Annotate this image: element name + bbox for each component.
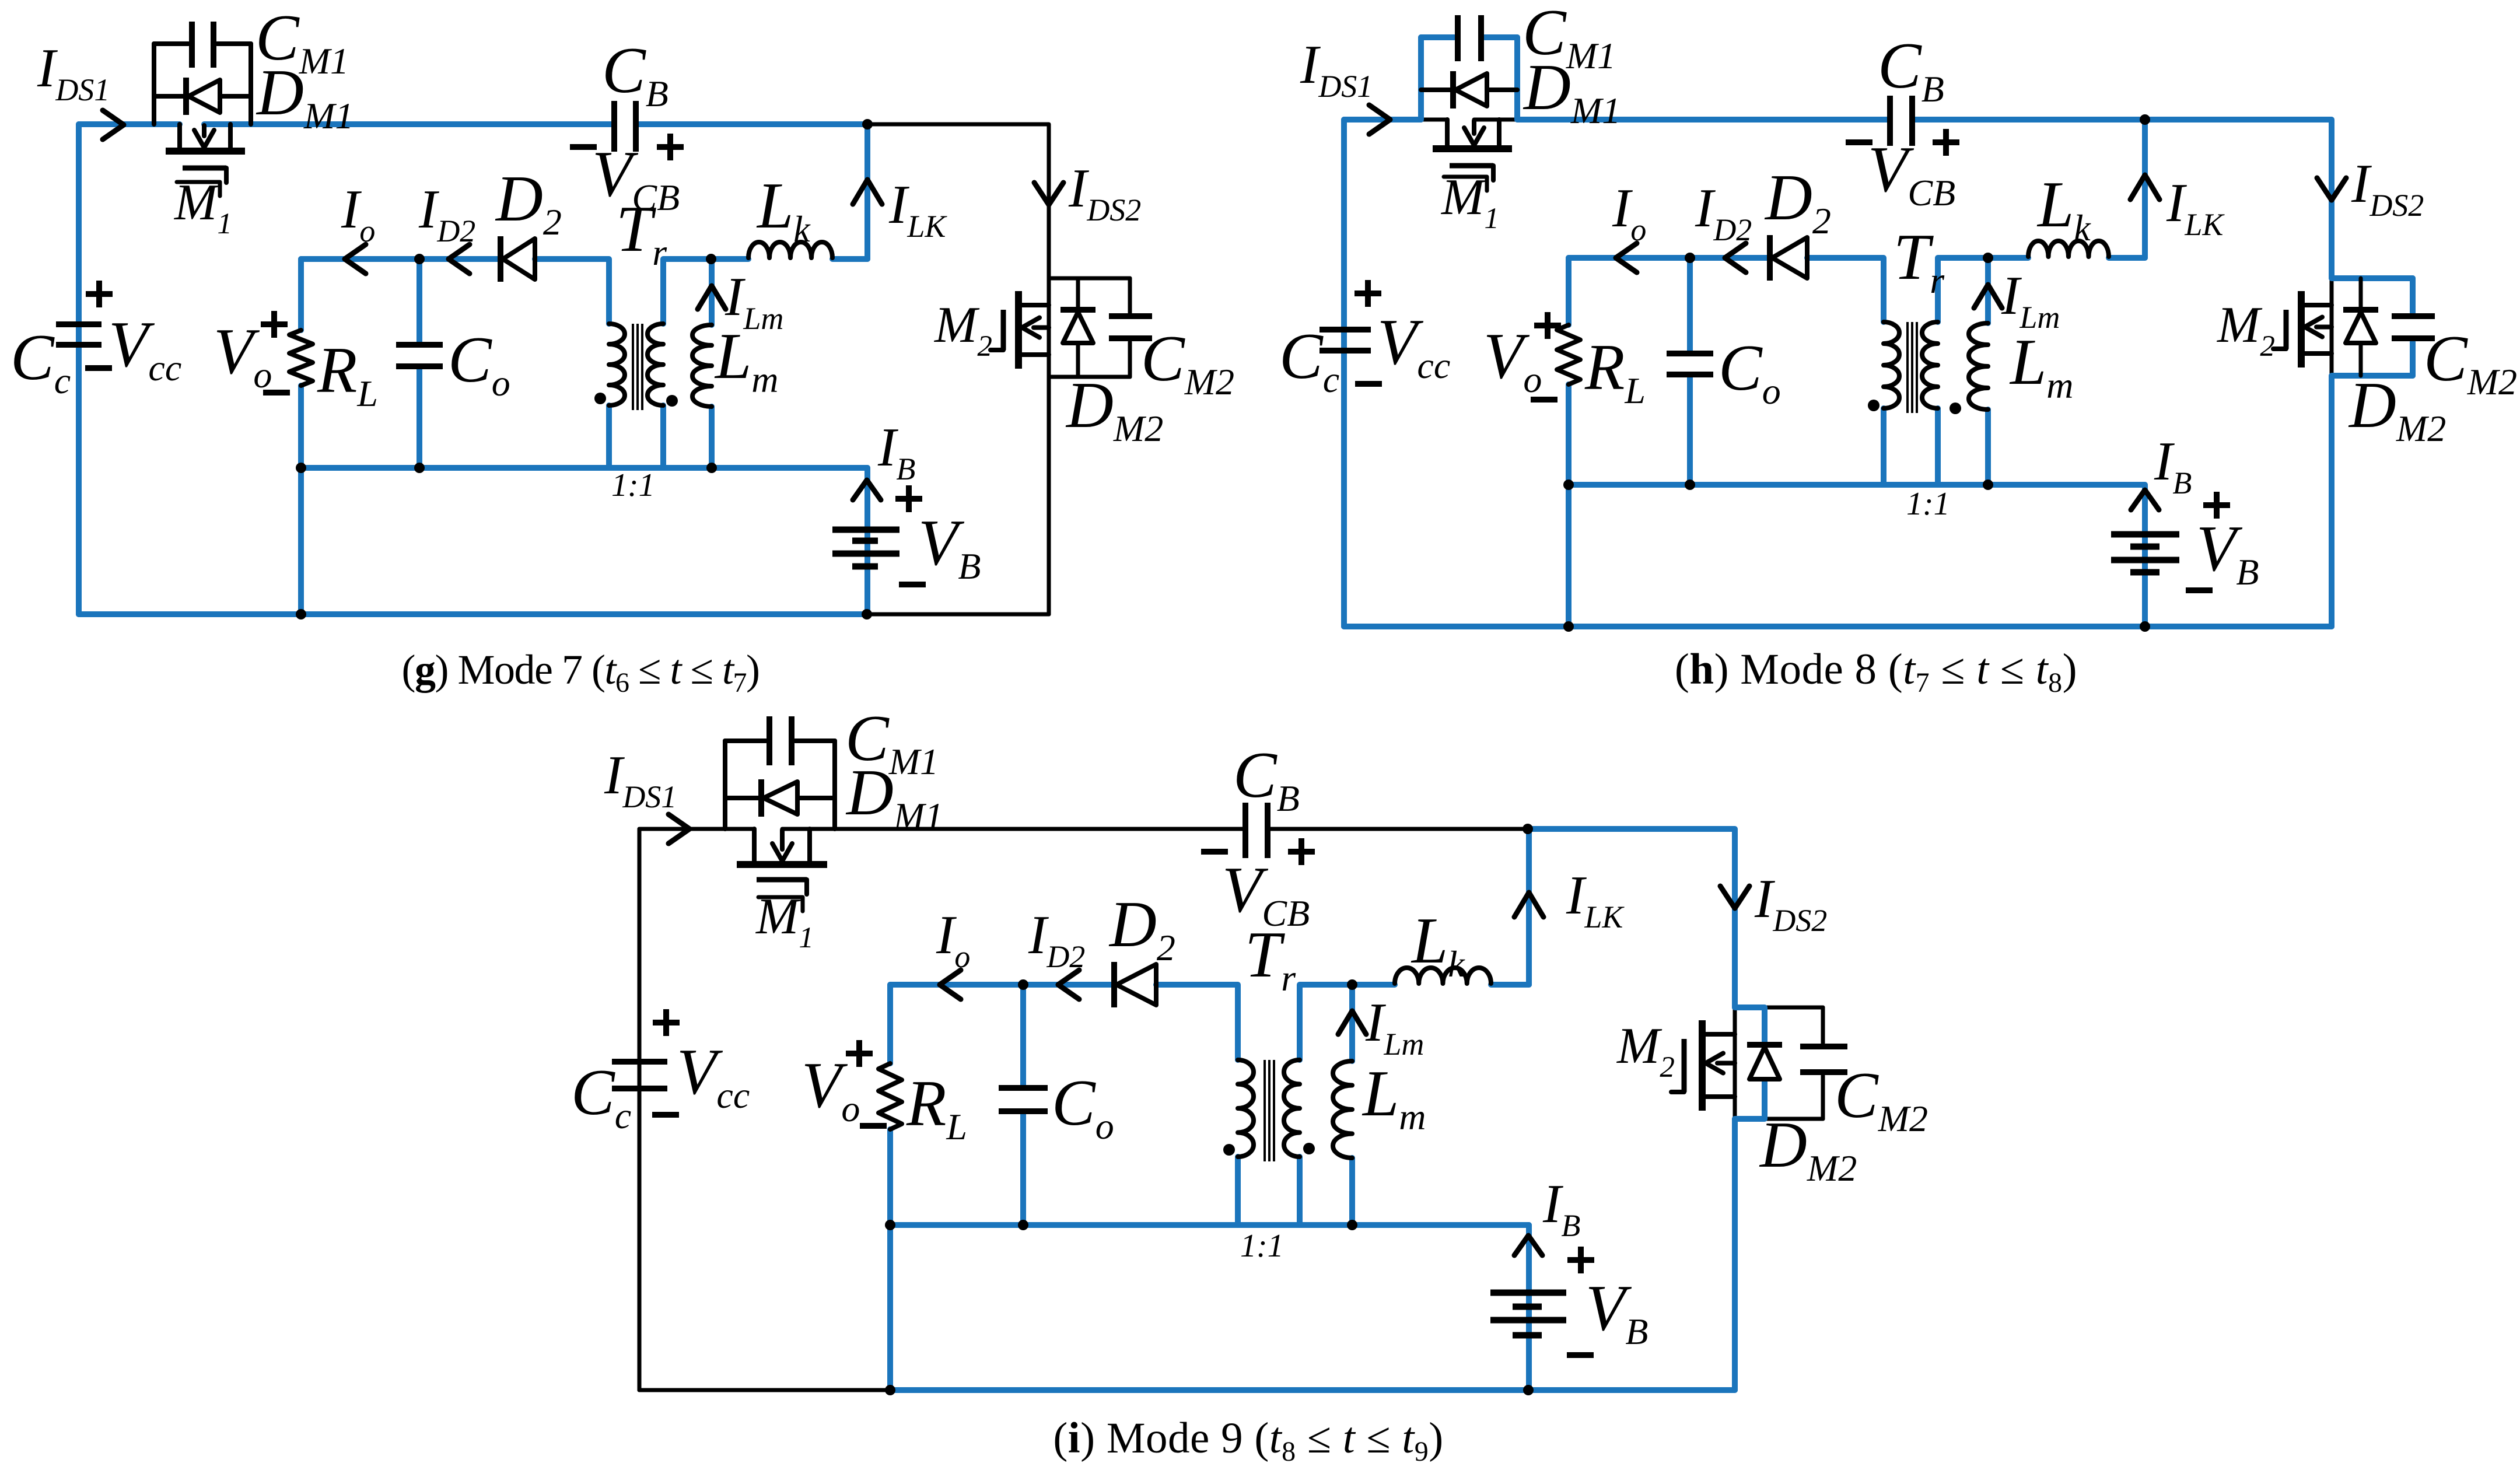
wire RL leg to bottom rail (h)	[1566, 485, 1571, 626]
transformer Tr core (g)	[632, 324, 634, 410]
junction dot (h)	[1563, 480, 1574, 490]
svg-text:1:1: 1:1	[1240, 1228, 1284, 1264]
diode DM1 (g)	[183, 78, 189, 115]
MOSFET M1 snubber block top (i)	[725, 738, 766, 743]
transformer Tr core (i)	[1263, 1060, 1266, 1161]
label minus VCB (i)	[1201, 849, 1228, 855]
wire RL top lead (h)	[1566, 258, 1571, 325]
label plus Vcc (h)	[1354, 290, 1381, 296]
transformer Tr secondary winding (g)	[647, 324, 663, 405]
diode DM2 (g)	[1060, 307, 1095, 313]
capacitor Co plates (g)	[396, 342, 443, 348]
wire top rail left segment (i)	[639, 827, 754, 831]
MOSFET M1 channel bar (g)	[166, 148, 245, 155]
svg-text:(h) Mode 8 (t7 ≤ t ≤ t8): (h) Mode 8 (t7 ≤ t ≤ t8)	[1675, 645, 2077, 698]
wire top rail middle segment (h)	[1517, 117, 1887, 123]
wire RL top lead (g)	[298, 259, 304, 330]
junction dot (i)	[1347, 1220, 1357, 1230]
snubber block bottom (M2) (g)	[1049, 375, 1130, 379]
wire VB branch (i)	[1526, 1225, 1532, 1390]
junction dot (i)	[1347, 979, 1357, 990]
label minus Vcc (h)	[1355, 381, 1382, 387]
label plus Vcc (g)	[86, 291, 113, 297]
wire ILK vertical (h)	[2142, 120, 2148, 258]
inductor Lm (i)	[1333, 1061, 1352, 1158]
arrow IDS1 (g)	[103, 110, 124, 139]
wire top rail under M1 (i)	[782, 827, 1242, 831]
transformer polarity dot primary (i)	[1223, 1144, 1235, 1156]
MOSFET M2 drain-source line (i)	[1733, 1007, 1737, 1119]
wire RL leg to bottom rail (i)	[887, 1225, 893, 1390]
arrow ILm (g)	[698, 286, 726, 309]
label plus VB (g)	[895, 496, 922, 502]
wire conduction path through DM2 (i)	[1735, 1007, 1765, 1044]
MOSFET M1 snubber block left side (i)	[723, 741, 727, 829]
transformer Tr primary winding (g)	[609, 324, 625, 405]
transformer polarity dot secondary (h)	[1950, 402, 1961, 414]
wire top rail to M2 corner (h)	[2145, 120, 2332, 278]
wire top rail right of CB (g)	[639, 121, 867, 127]
transformer polarity dot primary (g)	[594, 393, 606, 404]
MOSFET M2 source stub (h)	[2304, 351, 2332, 356]
MOSFET M1 gate bar (g)	[183, 166, 226, 171]
wire top rail left segment (g)	[79, 121, 180, 127]
snubber block right lower (M2) (g)	[1128, 342, 1132, 377]
wire Lk right lead (i)	[1491, 982, 1529, 988]
junction dot (h)	[2140, 114, 2150, 125]
capacitor CM2 plates (i)	[1800, 1044, 1847, 1049]
label plus VCB (g)	[657, 144, 684, 150]
junction dot (i)	[1522, 824, 1533, 834]
wire secondary bottom lead (g)	[660, 405, 666, 468]
MOSFET M1 gate bar (h)	[1450, 163, 1493, 169]
snubber block bottom (M2) (h)	[2332, 373, 2413, 379]
junction dot (h)	[1685, 480, 1695, 490]
MOSFET M1 snubber block right side (i)	[832, 741, 837, 829]
diode D2 (h)	[1767, 235, 1773, 281]
wire top rail right of CB (h)	[1915, 117, 2145, 123]
wire Co top lead (h)	[1687, 258, 1693, 353]
junction dot (g)	[414, 463, 425, 473]
arrow ILK (h)	[2130, 175, 2159, 199]
MOSFET M2 gate bar (i)	[1682, 1039, 1687, 1092]
wire RL leg to bottom rail (g)	[298, 468, 304, 614]
label minus VB (h)	[2186, 587, 2213, 593]
MOSFET M2 body arrow (i)	[1717, 1061, 1735, 1066]
wire top rail right of CB (i)	[1270, 827, 1529, 831]
wire primary bottom lead (h)	[1881, 408, 1887, 485]
wire RL bottom lead (h)	[1566, 384, 1571, 485]
wire output node: RL top to D2 cathode (i)	[890, 982, 1112, 988]
transformer Tr primary winding (h)	[1884, 322, 1899, 408]
MOSFET M1 snubber block top (h)	[1421, 34, 1454, 40]
MOSFET M1 gate bar (i)	[757, 877, 807, 883]
wire transformer secondary top (i)	[1300, 985, 1395, 1060]
snubber block right upper (M2) (g)	[1128, 278, 1132, 313]
label minus VB (i)	[1567, 1352, 1594, 1358]
diode DM1 (i)	[758, 779, 764, 817]
inductor Lm (g)	[692, 325, 712, 407]
transformer Tr core (h)	[1906, 322, 1909, 413]
arrow ID2 (h)	[1725, 243, 1746, 272]
MOSFET M1 gate lead (g)	[224, 168, 229, 183]
MOSFET M2 gate lead (h)	[2273, 346, 2286, 351]
label plus Vo (i)	[846, 1051, 873, 1056]
wire primary bottom lead (i)	[1235, 1157, 1241, 1225]
snubber block right upper (M2) (i)	[1821, 1007, 1825, 1043]
label plus Vo (h)	[1534, 323, 1561, 328]
MOSFET M2 drain stub (i)	[1705, 1032, 1735, 1037]
diode DM1 cathode lead (h)	[1421, 87, 1453, 92]
label minus Vo (i)	[860, 1123, 887, 1129]
arrow IDS2 (i)	[1720, 886, 1749, 908]
capacitor CM1 plates (g)	[189, 22, 195, 68]
wire left rail (h)	[1341, 120, 1347, 626]
wire Lm bottom lead (g)	[709, 407, 715, 468]
MOSFET M1 snubber block left side (h)	[1418, 37, 1424, 120]
diode DM1 anode lead (g)	[220, 94, 251, 99]
battery VB (i)	[1490, 1290, 1566, 1296]
MOSFET M2 channel bar (g)	[1015, 291, 1022, 369]
diode DM1 anode lead (h)	[1487, 87, 1517, 92]
MOSFET M2 channel bar (h)	[2298, 291, 2305, 367]
wire ILK vertical (i)	[1526, 829, 1532, 985]
snubber block top (M2) (g)	[1049, 276, 1130, 281]
junction dot (h)	[1983, 253, 1993, 263]
MOSFET M2 drain stub (h)	[2304, 303, 2332, 307]
MOSFET M1 body arrow (i)	[780, 830, 785, 849]
snubber block bottom (M2) (i)	[1735, 1117, 1823, 1121]
inductor Lk (h)	[2028, 241, 2109, 257]
diode DM2 anode lead (g)	[1076, 344, 1080, 377]
junction dot (i)	[1523, 1385, 1534, 1395]
MOSFET M1 drain stub (i)	[752, 829, 757, 862]
wire RL bottom lead (g)	[298, 386, 304, 468]
junction dot (g)	[296, 463, 306, 473]
MOSFET M2 gate lead (i)	[1671, 1090, 1684, 1094]
junction dot (i)	[1018, 1220, 1028, 1230]
arrow IB (h)	[2131, 490, 2159, 510]
junction dot (g)	[706, 463, 717, 473]
resistor RL (g)	[289, 330, 313, 386]
diode DM2 (i)	[1747, 1042, 1782, 1048]
arrow IDS2 (g)	[1034, 183, 1063, 205]
arrow IDS1 (h)	[1369, 105, 1390, 134]
label M1 overline (i)	[758, 897, 803, 911]
wire Lm bottom lead (i)	[1349, 1158, 1355, 1225]
MOSFET M2 drain-source line (g)	[1047, 278, 1051, 377]
diode DM1 cathode lead (g)	[154, 94, 186, 99]
inductor Lk (i)	[1395, 968, 1491, 984]
inductor Lm (h)	[1969, 323, 1988, 409]
MOSFET M1 drain stub (h)	[1445, 120, 1450, 146]
wire VB branch (g)	[864, 468, 870, 614]
junction dot (i)	[885, 1385, 895, 1395]
MOSFET M1 gate lead (i)	[804, 880, 809, 894]
label minus VB (g)	[899, 582, 926, 587]
MOSFET M1 channel bar (i)	[737, 861, 827, 868]
wire D2 anode to transformer primary corner (i)	[1156, 985, 1238, 1060]
junction dot (g)	[706, 254, 716, 264]
junction dot (g)	[296, 609, 306, 619]
MOSFET M2 body arrow (h)	[2316, 325, 2332, 330]
wire bottom rail right (i)	[890, 1387, 1735, 1393]
MOSFET M1 source stub (g)	[228, 124, 233, 148]
label plus VB (i)	[1567, 1257, 1594, 1263]
label minus VCB (g)	[570, 144, 597, 150]
wire VB branch (h)	[2142, 485, 2148, 626]
wire top rail left segment (h)	[1344, 117, 1421, 123]
svg-text:(g) Mode 7 (t6 ≤ t ≤ t7): (g) Mode 7 (t6 ≤ t ≤ t7)	[402, 646, 759, 698]
diode DM2 (h)	[2343, 307, 2378, 313]
label plus Vcc (i)	[653, 1020, 680, 1025]
MOSFET M1 body arrow (h)	[1472, 121, 1476, 134]
capacitor CM2 plates (h)	[2392, 313, 2435, 319]
arrow IB (g)	[853, 480, 881, 500]
wire Lk right lead (h)	[2109, 255, 2145, 261]
MOSFET M1 gate lead (h)	[1491, 166, 1496, 180]
wire left rail (g)	[76, 124, 82, 614]
MOSFET M2 drain stub (g)	[1021, 303, 1049, 307]
svg-text:(i) Mode 9 (t8 ≤ t ≤ t9): (i) Mode 9 (t8 ≤ t ≤ t9)	[1053, 1414, 1443, 1467]
arrow IDS1 (i)	[668, 814, 689, 843]
wire left rail (i)	[638, 829, 642, 1390]
diode DM2 cathode lead (h)	[2359, 278, 2363, 309]
wire M1 drain lead (h)	[1421, 118, 1447, 122]
label minus VCB (h)	[1846, 139, 1873, 145]
wire secondary bottom lead (i)	[1297, 1157, 1303, 1225]
wire Lm top lead (g)	[709, 259, 715, 325]
MOSFET M2 gate lead (g)	[991, 348, 1003, 352]
wire top rail to M2 corner (i)	[1529, 829, 1735, 1007]
capacitor CB plates (h)	[1887, 96, 1893, 146]
wire Lm top lead (i)	[1349, 985, 1355, 1061]
wire M2 source lead to rail (h)	[2329, 376, 2334, 626]
junction dot (h)	[2140, 621, 2150, 632]
MOSFET M1 snubber block right side (h)	[1514, 37, 1520, 120]
wire Lm top lead (h)	[1985, 258, 1991, 323]
wire M2 source lead to rail (i)	[1732, 1119, 1738, 1390]
diode DM2 anode lead (h)	[2359, 344, 2363, 376]
diode DM1 (h)	[1450, 71, 1456, 108]
diode DM1 anode lead (i)	[797, 796, 835, 800]
wire output node: RL top to D2 cathode (h)	[1569, 255, 1767, 261]
wire transformer secondary top (h)	[1938, 258, 2028, 322]
arrow ID2 (i)	[1058, 970, 1079, 999]
junction dot (h)	[1983, 480, 1993, 490]
arrow Io (g)	[345, 244, 366, 274]
junction dot (g)	[862, 119, 873, 129]
arrow ILK (g)	[853, 180, 882, 204]
label minus Vcc (i)	[652, 1112, 679, 1118]
svg-text:1:1: 1:1	[1906, 486, 1950, 522]
transformer Tr secondary winding (i)	[1284, 1060, 1300, 1157]
wire top rail under M1 (g)	[204, 121, 611, 127]
wire Lk right lead (g)	[832, 256, 867, 262]
wire Co bottom lead (h)	[1687, 374, 1693, 485]
wire Lm bottom lead (h)	[1985, 409, 1991, 485]
wire bottom rail left (g)	[79, 611, 867, 617]
junction dot (h)	[1685, 253, 1695, 263]
wire Co top lead (i)	[1020, 985, 1026, 1088]
MOSFET M2 source stub (g)	[1021, 352, 1049, 357]
wire Co bottom lead (g)	[416, 366, 422, 468]
diode DM1 cathode lead (i)	[725, 796, 761, 800]
label M1 overline (g)	[177, 182, 220, 196]
capacitor Cc plates (i)	[612, 1059, 667, 1065]
wire bottom rail left (h)	[1344, 624, 2332, 629]
wire Co bottom lead (i)	[1020, 1111, 1026, 1225]
arrow ILm (i)	[1338, 1011, 1366, 1034]
resistor RL (i)	[878, 1063, 902, 1129]
diode D2 (g)	[498, 236, 503, 282]
label plus Vo (g)	[261, 321, 288, 327]
battery VB (h)	[2111, 531, 2179, 538]
transformer Tr primary winding (i)	[1238, 1060, 1254, 1157]
capacitor Cc plates (h)	[1319, 327, 1371, 332]
arrow IDS2 (h)	[2317, 178, 2346, 200]
capacitor CB plates (g)	[611, 101, 617, 152]
diode DM2 cathode lead (g)	[1076, 278, 1080, 309]
MOSFET M1 source stub (i)	[807, 829, 812, 862]
transformer polarity dot secondary (g)	[666, 395, 678, 407]
MOSFET M2 drain-source line (h)	[2330, 278, 2334, 376]
snubber block right lower (M2) (i)	[1821, 1076, 1825, 1119]
battery VB (g)	[832, 527, 900, 533]
MOSFET M1 snubber block top (g)	[154, 41, 188, 46]
wire mid rail (g)	[301, 465, 867, 471]
label plus VCB (h)	[1933, 139, 1959, 145]
wire top rail to M2 corner (g)	[867, 124, 1049, 278]
arrow Io (i)	[940, 970, 961, 999]
resistor RL (h)	[1557, 325, 1580, 384]
wire bottom rail right (M2 return) (g)	[867, 377, 1049, 614]
wire D2 anode to transformer primary corner (h)	[1807, 258, 1884, 322]
transformer polarity dot primary (h)	[1868, 400, 1880, 411]
wire M1 source lead (h)	[1474, 118, 1517, 122]
MOSFET M1 source stub (h)	[1497, 120, 1501, 146]
snubber block top (M2) (h)	[2332, 275, 2413, 281]
junction dot (i)	[885, 1220, 895, 1230]
snubber block top (M2) (i)	[1735, 1006, 1823, 1010]
snubber block right upper (M2) (h)	[2410, 278, 2416, 313]
arrow ILm (h)	[1974, 285, 2002, 308]
wire RL bottom lead (i)	[887, 1129, 893, 1225]
label plus VCB (i)	[1288, 849, 1315, 855]
snubber block right lower (M2) (h)	[2410, 342, 2416, 376]
inductor Lk (g)	[748, 242, 832, 258]
capacitor CB plates (i)	[1242, 803, 1248, 858]
MOSFET M1 snubber block left side (g)	[152, 44, 156, 124]
wire ILK vertical (g)	[864, 124, 870, 259]
capacitor CM1 plates (i)	[766, 716, 772, 765]
svg-text:1:1: 1:1	[611, 467, 655, 503]
MOSFET M1 snubber block right side (g)	[249, 44, 253, 124]
junction dot (i)	[1018, 979, 1028, 990]
diode D2 (i)	[1111, 962, 1117, 1007]
wire RL top lead (i)	[887, 985, 893, 1063]
label minus Vcc (g)	[85, 365, 112, 371]
wire output node: RL top to D2 cathode (g)	[301, 256, 498, 262]
capacitor Co plates (i)	[999, 1085, 1048, 1091]
wire D2 anode to transformer primary corner (g)	[535, 259, 609, 324]
arrow Io (h)	[1616, 243, 1637, 272]
wire mid rail (h)	[1569, 482, 2145, 488]
transformer Tr secondary winding (h)	[1922, 322, 1938, 408]
junction dot (g)	[862, 609, 872, 619]
MOSFET M1 channel bar (h)	[1433, 145, 1512, 152]
MOSFET M2 channel bar (i)	[1699, 1020, 1706, 1111]
transformer polarity dot secondary (i)	[1303, 1143, 1315, 1154]
label M1 overline (h)	[1444, 177, 1487, 191]
MOSFET M2 source stub (i)	[1705, 1094, 1735, 1099]
capacitor CM2 plates (g)	[1109, 313, 1152, 319]
capacitor Co plates (h)	[1667, 351, 1713, 356]
capacitor Cc plates (g)	[56, 321, 101, 327]
arrow ILK (i)	[1514, 892, 1543, 917]
wire transformer secondary top (g)	[663, 259, 748, 324]
arrow ID2 (g)	[449, 244, 470, 274]
wire secondary bottom lead (h)	[1935, 408, 1941, 485]
MOSFET M2 gate bar (g)	[1001, 310, 1006, 350]
MOSFET M1 body arrow (g)	[202, 125, 206, 136]
MOSFET M2 gate bar (h)	[2284, 310, 2289, 349]
wire mid rail (i)	[890, 1222, 1529, 1228]
label minus Vo (h)	[1531, 397, 1557, 402]
MOSFET M2 body arrow (g)	[1034, 325, 1049, 330]
capacitor CM1 plates (h)	[1455, 15, 1461, 61]
MOSFET M1 drain stub (g)	[177, 124, 182, 148]
wire bottom rail left (i)	[639, 1388, 890, 1392]
wire M2 source lead to rail (g)	[1047, 377, 1051, 614]
junction dot (h)	[1563, 621, 1574, 632]
wire Co top lead (g)	[416, 259, 422, 345]
junction dot (g)	[414, 254, 425, 264]
label minus Vo (g)	[263, 390, 290, 395]
arrow IB (i)	[1514, 1235, 1542, 1255]
label plus VB (h)	[2203, 502, 2230, 508]
wire primary bottom lead (g)	[606, 405, 612, 468]
